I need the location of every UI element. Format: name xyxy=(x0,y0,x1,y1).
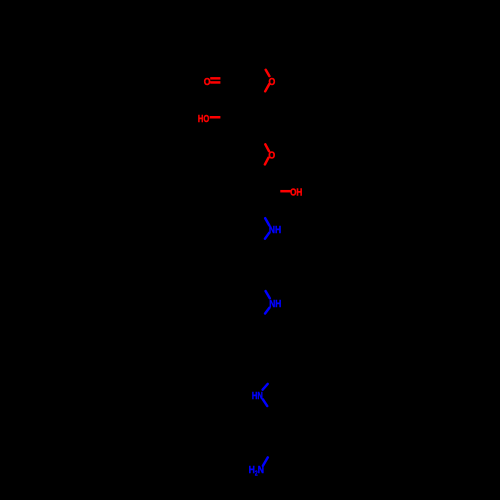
bond CH-OH (red half) xyxy=(280,190,290,193)
bond NH-CH2 (blue half, lower, amine 2) xyxy=(265,308,269,314)
svg-text:OH: OH xyxy=(290,188,302,199)
bond CH2-NH (blue half, upper, amine 2) xyxy=(266,291,270,298)
bond CH2-NH (blue half, upper, amine 1) xyxy=(265,218,269,225)
svg-text:HN: HN xyxy=(252,391,263,402)
svg-text:O: O xyxy=(268,151,275,162)
bond C=O aldehyde (red half of double bond, two bars) xyxy=(210,78,220,82)
bond O-ring (red half, down-left from methoxy O) xyxy=(265,84,269,91)
bond NH-CH2 (blue half, down-right, amine 3) xyxy=(263,399,267,406)
bond H2N-CH2 (blue half, up-right) xyxy=(263,457,268,465)
svg-text:O: O xyxy=(204,77,211,88)
bond O-CH2 (red half, down-left of ether O) xyxy=(265,158,269,165)
svg-text:NH: NH xyxy=(269,225,281,236)
bond NH-CH2 (blue half, lower, amine 1) xyxy=(265,233,269,239)
bond CH2-NH (blue half, up-right, amine 3) xyxy=(263,384,268,390)
bond O-CH3 (red half, methoxy stub up-left) xyxy=(266,70,270,76)
svg-text:HO: HO xyxy=(198,114,209,125)
bond HO-ring (red half) xyxy=(210,116,221,119)
svg-text:O: O xyxy=(269,77,276,88)
svg-text:NH: NH xyxy=(269,299,281,310)
bond ring-O (red half, up-left of ether O) xyxy=(265,144,269,151)
